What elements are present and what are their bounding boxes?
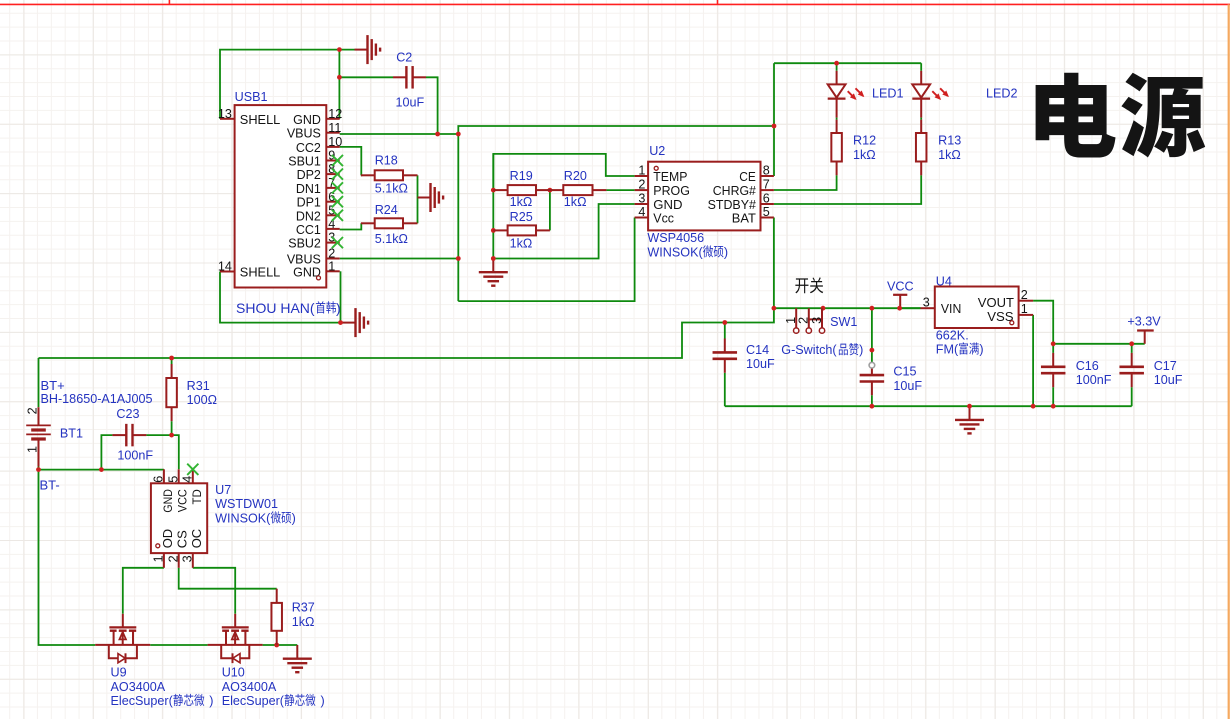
- junction dot: [870, 348, 875, 353]
- svg-text:1kΩ: 1kΩ: [853, 148, 876, 162]
- wire: [1131, 344, 1133, 353]
- ground: [492, 259, 494, 273]
- svg-text:USB1: USB1: [235, 90, 268, 104]
- svg-text:WSTDW01: WSTDW01: [215, 497, 278, 511]
- wire: [39, 470, 96, 645]
- svg-text:13: 13: [218, 107, 232, 121]
- wire: [547, 189, 552, 191]
- svg-text:2: 2: [1021, 288, 1028, 302]
- svg-text:100Ω: 100Ω: [187, 393, 217, 407]
- label WINSOK(微硕): [215, 511, 296, 525]
- svg-text:6: 6: [763, 192, 770, 206]
- svg-text:): ): [209, 694, 213, 708]
- ground: [355, 49, 368, 51]
- svg-text:DN1: DN1: [296, 182, 321, 196]
- svg-text:BH-18650-A1AJ005: BH-18650-A1AJ005: [41, 392, 153, 406]
- svg-text:C23: C23: [116, 407, 139, 421]
- wire: [606, 189, 634, 191]
- svg-text:PROG: PROG: [653, 183, 690, 198]
- sheet border tick: [168, 0, 170, 4]
- svg-text:C16: C16: [1076, 359, 1099, 373]
- wire: [871, 395, 873, 406]
- wire: [871, 308, 873, 362]
- label ElecSuper(静芯微): [222, 694, 325, 708]
- LED LED2: [912, 71, 1017, 118]
- capacitor C17: [1119, 353, 1182, 387]
- svg-text:10: 10: [328, 135, 342, 149]
- junction dot: [435, 132, 440, 137]
- junction dot: [897, 306, 902, 311]
- svg-text:4: 4: [181, 476, 195, 483]
- wire: [39, 308, 774, 358]
- resistor R12: [831, 120, 876, 176]
- junction dot: [821, 306, 826, 311]
- junction dot: [99, 467, 104, 472]
- svg-text:Vcc: Vcc: [653, 210, 674, 225]
- svg-text:662K.: 662K.: [936, 328, 969, 342]
- svg-text:3: 3: [810, 317, 824, 324]
- svg-text:SBU2: SBU2: [288, 237, 321, 251]
- svg-text:DN2: DN2: [296, 209, 321, 223]
- svg-text:SW1: SW1: [830, 315, 857, 329]
- svg-text:8: 8: [763, 164, 770, 178]
- junction dot: [337, 47, 342, 52]
- svg-text:LED2: LED2: [986, 87, 1018, 101]
- label 开关: [795, 278, 808, 293]
- ground: [969, 406, 971, 420]
- junction dot: [338, 320, 343, 325]
- wire: [338, 50, 340, 119]
- svg-text:U7: U7: [215, 483, 231, 497]
- svg-text:GND: GND: [293, 113, 321, 127]
- junction dot: [491, 256, 496, 261]
- wire: [417, 175, 419, 223]
- svg-text:3: 3: [181, 555, 195, 562]
- svg-text:R18: R18: [375, 153, 398, 167]
- svg-text:C15: C15: [893, 365, 916, 379]
- wire: [724, 323, 726, 339]
- svg-text:SHELL: SHELL: [240, 113, 281, 127]
- capacitor C23: [112, 407, 153, 462]
- svg-text:OD: OD: [160, 529, 175, 549]
- svg-text:CC2: CC2: [296, 141, 321, 155]
- connector USB1: [218, 90, 342, 288]
- switch SW1: [784, 308, 857, 333]
- svg-text:U9: U9: [111, 666, 127, 680]
- wire: [172, 435, 179, 469]
- wire: [774, 62, 921, 64]
- junction dot: [834, 61, 839, 66]
- svg-text:R25: R25: [510, 210, 533, 224]
- svg-text:R31: R31: [187, 379, 210, 393]
- wire: [1052, 344, 1054, 353]
- wire: [340, 271, 342, 322]
- svg-text:1: 1: [328, 259, 335, 273]
- svg-text:1kΩ: 1kΩ: [938, 148, 961, 162]
- wire: [38, 358, 40, 407]
- wire: [38, 467, 40, 470]
- junction dot: [169, 356, 174, 361]
- svg-text:3: 3: [638, 192, 645, 206]
- junction dot: [337, 75, 342, 80]
- transistor U10 AO3400A: [208, 614, 277, 694]
- wire: [339, 76, 393, 78]
- resistor R18: [361, 153, 418, 195]
- wire: [920, 118, 922, 120]
- wire: [340, 258, 459, 260]
- wire: [340, 147, 362, 175]
- svg-text:R20: R20: [564, 169, 587, 183]
- svg-text:3: 3: [923, 296, 930, 310]
- svg-text:BAT: BAT: [732, 210, 756, 225]
- sheet border tick: [717, 0, 719, 4]
- wire: [220, 50, 355, 119]
- sheet border top line: [0, 3, 1230, 5]
- wire: [101, 435, 112, 470]
- wire: [1032, 315, 1034, 406]
- junction dot: [491, 188, 496, 193]
- svg-text:VCC: VCC: [176, 489, 190, 512]
- svg-text:U4: U4: [936, 274, 952, 288]
- resistor R25: [493, 210, 550, 250]
- junction dot: [491, 228, 496, 233]
- resistor R31: [166, 364, 217, 421]
- svg-text:12: 12: [328, 107, 342, 121]
- no-connect X pins: [332, 155, 343, 166]
- wire: [458, 126, 774, 134]
- IC U2 WSP4056: [635, 144, 774, 245]
- svg-text:R12: R12: [853, 134, 876, 148]
- svg-text:): ): [859, 343, 863, 357]
- svg-text:ElecSuper(: ElecSuper(: [111, 694, 174, 708]
- junction dot: [456, 256, 461, 261]
- wire: [1033, 301, 1053, 344]
- IC U4 662K regulator: [921, 274, 1034, 342]
- svg-text:7: 7: [763, 178, 770, 192]
- svg-text:WSP4056: WSP4056: [647, 231, 704, 245]
- junction dot: [772, 124, 777, 129]
- svg-text:CC1: CC1: [296, 223, 321, 237]
- label ElecSuper(静芯微): [111, 694, 214, 708]
- wire: [493, 154, 634, 190]
- wire: [774, 307, 921, 309]
- junction dot: [456, 132, 461, 137]
- label FM(富满): [936, 342, 984, 356]
- svg-text:1: 1: [638, 164, 645, 178]
- svg-text:LED1: LED1: [872, 87, 904, 101]
- no-connect X pin4: [187, 464, 198, 475]
- svg-text:R24: R24: [375, 203, 398, 217]
- svg-text:ElecSuper(: ElecSuper(: [222, 694, 285, 708]
- svg-text:1kΩ: 1kΩ: [510, 195, 533, 209]
- svg-text:CS: CS: [175, 530, 190, 548]
- svg-text:R37: R37: [292, 601, 315, 615]
- wire: [426, 77, 438, 134]
- wire: [263, 644, 298, 646]
- svg-text:WINSOK(: WINSOK(: [647, 245, 703, 259]
- transistor U9 AO3400A: [95, 614, 166, 694]
- svg-text:VIN: VIN: [941, 301, 961, 316]
- junction dot: [274, 643, 279, 648]
- svg-text:+3.3V: +3.3V: [1127, 314, 1161, 328]
- wire: [492, 154, 494, 259]
- svg-text:C17: C17: [1154, 359, 1177, 373]
- junction dot: [548, 188, 553, 193]
- svg-text:): ): [292, 511, 296, 525]
- svg-text:1kΩ: 1kΩ: [510, 237, 533, 251]
- svg-text:AO3400A: AO3400A: [111, 680, 166, 694]
- label WINSOK(微硕): [647, 245, 728, 259]
- svg-text:1: 1: [25, 446, 39, 453]
- wire: [150, 644, 207, 646]
- svg-text:CE: CE: [739, 169, 756, 184]
- svg-text:DP2: DP2: [297, 168, 321, 182]
- svg-text:4: 4: [638, 205, 645, 219]
- svg-text:2: 2: [797, 317, 811, 324]
- svg-text:): ): [979, 343, 983, 357]
- capacitor C2: [393, 50, 426, 109]
- wire: [773, 63, 775, 176]
- wire: [123, 568, 164, 614]
- junction dot: [1129, 341, 1134, 346]
- ground: [343, 322, 356, 324]
- svg-text:10uF: 10uF: [396, 96, 425, 110]
- svg-text:): ): [336, 300, 341, 316]
- junction dot: [169, 433, 174, 438]
- wire: [836, 118, 838, 120]
- svg-text:100nF: 100nF: [1076, 373, 1112, 387]
- ground: [296, 645, 298, 659]
- junction dot: [36, 467, 41, 472]
- wire: [457, 134, 459, 301]
- svg-text:SHELL: SHELL: [240, 266, 281, 280]
- battery BT1: [25, 407, 83, 466]
- ground: [418, 197, 431, 199]
- svg-text:2: 2: [25, 407, 39, 414]
- junction dot: [870, 404, 875, 409]
- svg-text:1: 1: [152, 555, 166, 562]
- svg-text:10uF: 10uF: [893, 379, 922, 393]
- svg-text:DP1: DP1: [297, 196, 321, 210]
- junction dot: [1051, 404, 1056, 409]
- sheet border right line: [1228, 4, 1230, 719]
- capacitor C16: [1041, 353, 1112, 387]
- svg-text:GND: GND: [161, 489, 175, 513]
- wire: [493, 204, 634, 259]
- wire: [146, 434, 171, 436]
- capacitor C15: [860, 362, 923, 395]
- svg-text:): ): [321, 694, 325, 708]
- svg-text:2: 2: [167, 555, 181, 562]
- svg-text:1kΩ: 1kΩ: [564, 195, 587, 209]
- svg-text:1: 1: [1021, 302, 1028, 316]
- wire: [171, 421, 173, 435]
- svg-text:2: 2: [638, 178, 645, 192]
- svg-text:5.1kΩ: 5.1kΩ: [375, 182, 408, 196]
- wire: [171, 358, 173, 364]
- svg-text:R19: R19: [510, 169, 533, 183]
- wire: [340, 133, 459, 135]
- resistor R37: [271, 589, 314, 645]
- svg-text:BT1: BT1: [60, 427, 83, 441]
- svg-text:BT-: BT-: [40, 477, 60, 492]
- svg-text:5.1kΩ: 5.1kΩ: [375, 232, 408, 246]
- resistor R13: [916, 120, 961, 176]
- wire: [773, 218, 775, 309]
- title 电源: [1036, 73, 1206, 158]
- junction dot: [1031, 404, 1036, 409]
- wire: [341, 322, 343, 324]
- wire: [724, 373, 726, 406]
- junction dot: [967, 404, 972, 409]
- svg-text:R13: R13: [938, 134, 961, 148]
- resistor R19: [493, 169, 550, 209]
- wire: [39, 469, 164, 471]
- svg-text:AO3400A: AO3400A: [222, 680, 277, 694]
- label G-Switch(品赞): [781, 343, 863, 357]
- svg-text:10uF: 10uF: [1154, 373, 1183, 387]
- wire: [920, 63, 922, 71]
- svg-text:WINSOK(: WINSOK(: [215, 511, 271, 525]
- svg-text:100nF: 100nF: [117, 449, 153, 463]
- svg-text:VOUT: VOUT: [978, 295, 1014, 310]
- svg-text:11: 11: [328, 121, 341, 135]
- svg-text:U10: U10: [222, 666, 245, 680]
- resistor R24: [361, 203, 418, 246]
- junction dot: [722, 320, 727, 325]
- capacitor C14: [713, 339, 775, 373]
- junction dot: [1051, 341, 1056, 346]
- svg-text:C14: C14: [746, 343, 769, 357]
- wire: [1131, 387, 1133, 406]
- svg-text:): ): [724, 245, 728, 259]
- svg-text:C2: C2: [396, 50, 412, 64]
- svg-text:5: 5: [763, 205, 770, 219]
- svg-text:10uF: 10uF: [746, 357, 775, 371]
- svg-text:VBUS: VBUS: [287, 127, 321, 141]
- wire: [900, 307, 921, 309]
- svg-text:TD: TD: [190, 489, 204, 504]
- wire: [458, 218, 634, 302]
- LED LED1: [828, 71, 904, 118]
- IC U7 WSTDW01: [151, 469, 278, 568]
- wire: [193, 568, 235, 614]
- junction dot: [870, 306, 875, 311]
- svg-text:G-Switch(: G-Switch(: [781, 343, 837, 357]
- svg-text:FM(: FM(: [936, 343, 959, 357]
- svg-text:6: 6: [152, 476, 166, 483]
- svg-text:1kΩ: 1kΩ: [292, 615, 315, 629]
- svg-text:VCC: VCC: [887, 279, 914, 293]
- wire: [549, 190, 551, 230]
- svg-text:SHOU HAN(: SHOU HAN(: [236, 300, 315, 316]
- wire: [1052, 387, 1054, 406]
- wire: [774, 175, 921, 204]
- resistor R20: [550, 169, 607, 209]
- wire: [1053, 343, 1145, 345]
- power flag VCC: [893, 294, 907, 296]
- wire: [340, 223, 362, 229]
- svg-text:U2: U2: [649, 144, 665, 158]
- svg-text:SBU1: SBU1: [288, 155, 321, 169]
- svg-text:TEMP: TEMP: [653, 169, 687, 184]
- label SHOU HAN(首韩): [236, 300, 341, 316]
- svg-text:CHRG#: CHRG#: [713, 183, 757, 198]
- wire: [179, 568, 277, 589]
- svg-text:OC: OC: [189, 529, 204, 549]
- svg-text:14: 14: [218, 259, 232, 273]
- svg-text:5: 5: [167, 476, 181, 483]
- wire: [220, 272, 341, 323]
- wire: [725, 405, 1132, 407]
- junction dot: [772, 306, 777, 311]
- wire: [774, 175, 837, 190]
- wire: [836, 63, 838, 71]
- power flag +3.3V: [1137, 329, 1154, 331]
